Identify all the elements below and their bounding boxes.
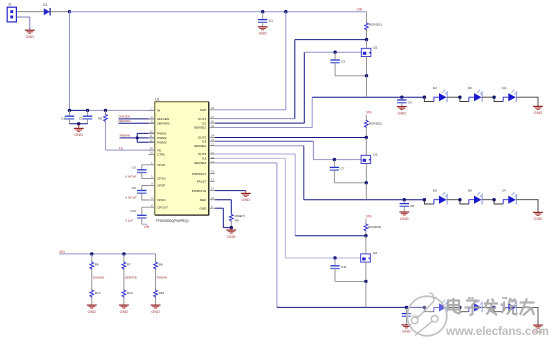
wire source to LED rail Q3 xyxy=(365,281,367,307)
resistor R(GND2) xyxy=(364,115,381,138)
ground (LED string end) xyxy=(533,106,543,115)
svg-text:D4: D4 xyxy=(502,86,506,90)
svg-text:24: 24 xyxy=(211,134,214,138)
ground (input caps) xyxy=(74,124,84,137)
svg-text:SENSE2: SENSE2 xyxy=(194,144,206,148)
svg-text:G1: G1 xyxy=(202,121,206,125)
wire rail to LEDs xyxy=(366,199,424,201)
svg-text:20: 20 xyxy=(211,156,214,160)
svg-text:D7: D7 xyxy=(502,189,506,193)
watermark overlay (decorative, not labelled further) xyxy=(407,293,549,338)
node gate cap junction Q1 xyxy=(333,51,336,54)
capacitor C8 (LED rail) xyxy=(400,200,415,212)
capacitor C12 (LED rail) xyxy=(402,307,418,324)
wire J1 pin2 to ground xyxy=(16,17,29,30)
ground (R15) xyxy=(151,305,161,314)
wire IN net xyxy=(70,109,88,111)
svg-text:G3: G3 xyxy=(202,157,206,161)
resistor R15 xyxy=(154,290,165,305)
net label DIAGEN with wire to pin 6 xyxy=(119,115,155,119)
wire OUT3 net xyxy=(215,154,366,236)
svg-text:14: 14 xyxy=(150,151,153,155)
svg-text:Q2: Q2 xyxy=(373,152,377,156)
wire VIN vertical to IN xyxy=(69,12,71,111)
wire PWMCHG to ground xyxy=(215,190,246,192)
ground (J1) xyxy=(25,30,35,39)
capacitor C6 (CP1P-CP1N) xyxy=(125,165,148,179)
svg-text:D3: D3 xyxy=(468,86,472,90)
LED D2 xyxy=(433,86,448,102)
wire SENSE3 net xyxy=(215,163,366,308)
svg-text:DERATE: DERATE xyxy=(119,119,131,123)
svg-text:R6: R6 xyxy=(95,263,99,267)
svg-text:C6: C6 xyxy=(132,165,136,169)
node VIN rail left xyxy=(68,10,71,13)
capacitor C10 (CPOUT-VIN) xyxy=(125,207,148,224)
ground (PWMCHG) xyxy=(241,191,251,203)
svg-text:PWMIN: PWMIN xyxy=(157,276,167,280)
resistor R13 xyxy=(90,290,101,305)
svg-text:REF: REF xyxy=(200,198,206,202)
capacitor C4 (LED rail) xyxy=(397,97,412,106)
node R5 xyxy=(104,109,107,112)
svg-text:DERATE: DERATE xyxy=(157,122,169,126)
wire jog to D2 xyxy=(424,97,434,101)
svg-text:D5: D5 xyxy=(433,189,437,193)
wire jog to D9 xyxy=(424,307,434,311)
svg-text:C11: C11 xyxy=(341,265,347,269)
transistor Q1 xyxy=(361,40,378,76)
LED D4 xyxy=(502,86,517,102)
svg-text:VIN: VIN xyxy=(366,111,372,115)
LED D3 xyxy=(468,86,483,102)
LED D5 xyxy=(433,189,448,205)
svg-text:CTRL: CTRL xyxy=(157,153,165,157)
wire VIN bias rail xyxy=(59,253,156,255)
svg-text:R7: R7 xyxy=(127,263,131,267)
LED D11 xyxy=(502,296,517,312)
svg-text:21: 21 xyxy=(211,151,214,155)
svg-text:VIN: VIN xyxy=(144,225,150,229)
wire jog to D6 xyxy=(460,200,469,204)
node bias rail DIAGEN xyxy=(90,252,93,255)
svg-text:DERATE: DERATE xyxy=(125,276,137,280)
svg-text:CPOUT: CPOUT xyxy=(157,205,168,209)
svg-text:C5: C5 xyxy=(79,116,83,120)
node REF/GND junction xyxy=(230,226,233,229)
svg-text:16: 16 xyxy=(211,187,214,191)
net label DERATE with wire to pin 5 xyxy=(119,119,155,123)
wire jog to D4 xyxy=(494,97,503,101)
node input gnd xyxy=(77,122,80,125)
wire J1 pin1 to D1 xyxy=(16,11,43,13)
resistor R6 xyxy=(90,254,99,270)
node bias rail DERATE xyxy=(122,252,125,255)
svg-text:R15: R15 xyxy=(159,291,165,295)
node LED D2 feed xyxy=(423,96,426,99)
svg-text:23: 23 xyxy=(211,138,214,142)
node LED D11 feed xyxy=(492,306,495,309)
wire rail to LEDs xyxy=(366,306,425,308)
node LED D4 feed xyxy=(492,96,495,99)
svg-text:VIN: VIN xyxy=(357,7,363,11)
LED D10 xyxy=(468,296,483,312)
wire G2 net xyxy=(215,141,361,159)
connector J1 xyxy=(7,3,16,22)
wire D5 cathode xyxy=(447,199,460,201)
resistor R7 xyxy=(122,254,131,270)
node LED D6 feed xyxy=(458,198,461,201)
wire VIN top rail xyxy=(70,11,367,13)
capacitor C1 xyxy=(258,12,273,27)
node rail cap junction C8 xyxy=(403,198,406,201)
wire D9 cathode xyxy=(447,306,460,308)
net label PWMIN with wire to PWM pins xyxy=(120,133,155,142)
svg-text:PWM3: PWM3 xyxy=(157,140,167,144)
node drain junction Q3 xyxy=(364,234,367,237)
svg-text:PWMIN: PWMIN xyxy=(120,134,130,138)
U1 right pin stubs, numbers and names xyxy=(192,106,215,210)
wire G3 net xyxy=(215,158,361,258)
svg-text:17: 17 xyxy=(211,177,214,181)
ground (C4) xyxy=(397,107,407,116)
wire D3 cathode xyxy=(482,96,494,98)
net label DERATE (divider tap) xyxy=(124,270,137,290)
wire D2 cathode xyxy=(447,96,460,98)
svg-text:U1: U1 xyxy=(155,98,159,102)
wire last LED to ground xyxy=(516,307,538,325)
wire SENSE2 net xyxy=(215,146,366,200)
svg-text:11: 11 xyxy=(150,134,153,138)
svg-text:28: 28 xyxy=(211,106,214,110)
svg-text:PWMCHG: PWMCHG xyxy=(192,189,207,193)
svg-text:R9: R9 xyxy=(235,219,239,223)
net label VIN (C10) xyxy=(142,224,150,229)
wire OUT1 net xyxy=(215,40,367,119)
wire SENSE1 net xyxy=(215,97,367,127)
svg-text:Q1: Q1 xyxy=(374,45,378,49)
ground (C12) xyxy=(402,325,412,334)
svg-text:C10: C10 xyxy=(130,209,136,213)
wire jog to D5 xyxy=(424,200,434,204)
svg-text:C2: C2 xyxy=(341,59,345,63)
svg-text:R(GND3): R(GND3) xyxy=(368,225,381,229)
svg-text:0.047µF: 0.047µF xyxy=(125,196,136,200)
ground (C8) xyxy=(399,212,409,221)
svg-text:R8: R8 xyxy=(159,263,163,267)
capacitor C7 (gate-source) xyxy=(330,160,367,183)
svg-text:27: 27 xyxy=(211,115,214,119)
node rail cap junction C12 xyxy=(405,306,408,309)
wire rail to LEDs xyxy=(367,96,425,98)
wire OUT2 net xyxy=(215,137,366,139)
svg-text:C7: C7 xyxy=(340,167,344,171)
svg-text:R(GND2): R(GND2) xyxy=(369,121,382,125)
svg-text:18: 18 xyxy=(211,170,214,174)
svg-text:TPS92830QPWPRQ1: TPS92830QPWPRQ1 xyxy=(156,219,189,223)
svg-text:CP1N: CP1N xyxy=(157,177,165,181)
resistor R14 xyxy=(122,290,133,305)
node source junction Q2 xyxy=(365,181,368,184)
svg-text:GND: GND xyxy=(199,206,207,210)
node LED D7 feed xyxy=(492,198,495,201)
svg-text:R13: R13 xyxy=(95,291,101,295)
LED D6 xyxy=(468,189,483,205)
wire FD net xyxy=(106,149,155,151)
svg-text:VIN: VIN xyxy=(59,250,65,254)
wire D6 cathode xyxy=(482,199,494,201)
svg-text:15: 15 xyxy=(211,196,214,200)
node gate cap junction Q2 xyxy=(333,158,336,161)
svg-text:R5: R5 xyxy=(98,116,102,120)
svg-text:CP1P: CP1P xyxy=(157,163,165,167)
ground (R14) xyxy=(119,305,129,314)
wire G1 net xyxy=(215,52,361,123)
svg-text:SENSE1: SENSE1 xyxy=(194,126,206,130)
op-amp U1 TPS92830-Q1 body xyxy=(155,98,209,223)
node C5 xyxy=(86,109,89,112)
svg-text:0.047µF: 0.047µF xyxy=(125,175,136,179)
node rail cap junction C4 xyxy=(400,96,403,99)
node IN corner xyxy=(68,109,71,112)
wire source to LED rail Q1 xyxy=(366,76,368,97)
svg-text:J1: J1 xyxy=(8,3,12,7)
node gate cap junction Q3 xyxy=(333,256,336,259)
svg-text:DIAGEN: DIAGEN xyxy=(93,276,105,280)
svg-text:19: 19 xyxy=(211,160,214,164)
svg-text:CP2N: CP2N xyxy=(157,198,165,202)
node source junction Q3 xyxy=(364,280,367,283)
svg-text:DIAGEN: DIAGEN xyxy=(119,115,131,119)
svg-text:C1: C1 xyxy=(269,19,273,23)
node LED D10 feed xyxy=(458,306,461,309)
svg-text:D1: D1 xyxy=(43,3,47,7)
node source junction Q1 xyxy=(365,74,368,77)
svg-text:10: 10 xyxy=(150,130,153,134)
node LED D5 feed xyxy=(423,198,426,201)
svg-text:C9: C9 xyxy=(132,186,136,190)
svg-text:25: 25 xyxy=(211,124,214,128)
capacitor C5 xyxy=(79,110,92,123)
svg-text:IN: IN xyxy=(157,109,160,113)
ground (LED string end) xyxy=(533,212,543,221)
resistor R5 xyxy=(98,110,107,150)
capacitor C2 (gate-source) xyxy=(330,52,366,76)
ground (C1) xyxy=(258,27,268,36)
node drain junction Q1 xyxy=(365,38,368,41)
net label PWMIN (divider tap) xyxy=(156,270,167,290)
wire SUP net xyxy=(215,12,286,110)
wire GND pin net xyxy=(215,208,231,227)
LED D7 xyxy=(502,189,517,205)
U1 left pin stubs, numbers and names xyxy=(148,107,169,210)
svg-text:R(GND1): R(GND1) xyxy=(369,23,382,27)
wire jog to D3 xyxy=(460,97,469,101)
svg-text:26: 26 xyxy=(211,120,214,124)
resistor R8 xyxy=(154,254,163,270)
svg-text:C3: C3 xyxy=(61,116,65,120)
node drain junction Q2 xyxy=(365,136,368,139)
svg-text:PWMOUT: PWMOUT xyxy=(192,172,206,176)
svg-text:G2: G2 xyxy=(202,140,206,144)
svg-text:PWM1: PWM1 xyxy=(157,132,167,136)
wire last LED to ground xyxy=(516,97,538,106)
resistor R(GND3) xyxy=(364,219,381,236)
transistor Q3 xyxy=(361,236,378,282)
svg-text:R14: R14 xyxy=(127,291,133,295)
svg-text:C4: C4 xyxy=(408,100,412,104)
svg-text:FAULT: FAULT xyxy=(197,180,207,184)
net label DIAGEN (divider tap) xyxy=(92,270,105,290)
svg-text:D2: D2 xyxy=(433,86,437,90)
svg-text:OUT1: OUT1 xyxy=(198,117,207,121)
ground (R13) xyxy=(87,305,97,314)
svg-text:CP2P: CP2P xyxy=(157,184,165,188)
wire REF net xyxy=(215,200,231,214)
node LED D3 feed xyxy=(458,96,461,99)
svg-text:Q3: Q3 xyxy=(373,251,377,255)
wire D10 cathode xyxy=(482,306,494,308)
node LED D9 feed xyxy=(423,306,426,309)
node SUP riser xyxy=(284,10,287,13)
svg-text:C8: C8 xyxy=(410,204,414,208)
svg-text:SUP: SUP xyxy=(200,108,206,112)
wire jog to D10 xyxy=(460,307,469,311)
wire jog to D11 xyxy=(494,307,503,311)
svg-text:DIAGEN: DIAGEN xyxy=(157,117,169,121)
svg-text:13: 13 xyxy=(150,146,153,150)
wire D1 to node xyxy=(51,11,70,13)
svg-text:www.elecfans.com: www.elecfans.com xyxy=(445,324,549,338)
svg-text:D6: D6 xyxy=(468,189,472,193)
svg-text:0.1µF: 0.1µF xyxy=(125,219,133,223)
capacitor C3 xyxy=(61,110,74,123)
node C1 xyxy=(261,10,264,13)
capacitor C11 (gate-source) xyxy=(330,258,366,281)
transistor Q2 xyxy=(361,138,378,183)
wire input caps to ground xyxy=(70,123,88,125)
ground (REF divider) xyxy=(226,228,236,239)
resistor R(GND1) xyxy=(365,12,382,40)
wire last LED to ground xyxy=(516,200,538,213)
LED D9 xyxy=(433,296,448,312)
wire jog to D7 xyxy=(494,200,503,204)
svg-text:12: 12 xyxy=(150,138,153,142)
svg-text:VIN: VIN xyxy=(366,214,372,218)
resistor R(SET) R9 xyxy=(229,214,245,228)
svg-text:22: 22 xyxy=(211,142,214,146)
diode D1 xyxy=(43,3,50,16)
capacitor C9 (CP2P-CP2N) xyxy=(125,186,148,201)
svg-text:SENSE3: SENSE3 xyxy=(194,161,206,165)
svg-text:R(SET): R(SET) xyxy=(235,214,245,218)
wire source to LED rail Q2 xyxy=(365,183,367,200)
ground (LED string end) xyxy=(533,325,543,334)
svg-text:OUT3: OUT3 xyxy=(198,152,207,156)
